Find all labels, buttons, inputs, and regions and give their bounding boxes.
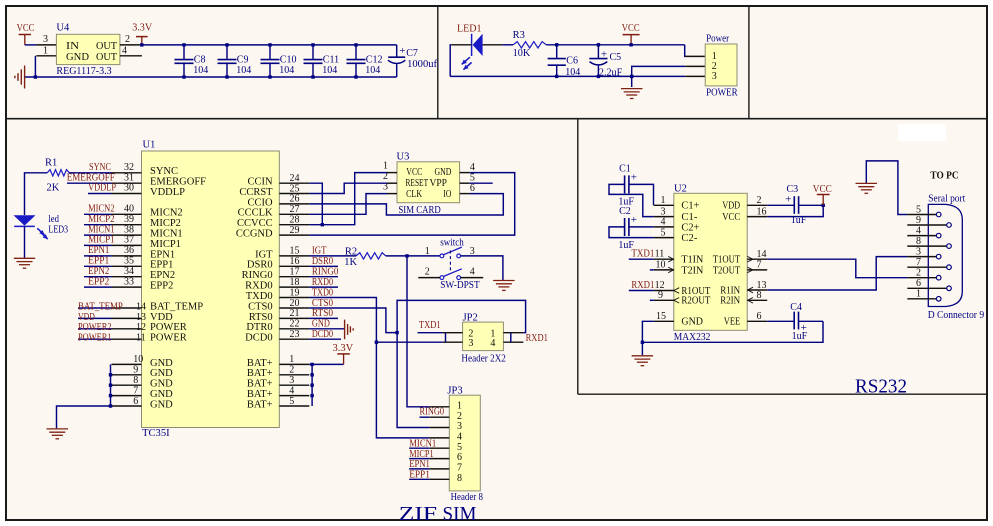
svg-text:MICP2: MICP2 [88, 214, 115, 225]
pin 5 of U1 [279, 405, 309, 407]
svg-text:+: + [785, 194, 791, 206]
svg-text:23: 23 [290, 329, 300, 340]
svg-text:VDDLP: VDDLP [150, 187, 185, 198]
svg-text:10: 10 [656, 260, 666, 271]
svg-text:4: 4 [289, 385, 294, 396]
svg-text:28: 28 [290, 215, 300, 226]
svg-text:VDD: VDD [150, 312, 173, 323]
svg-text:VDD: VDD [78, 312, 95, 323]
wire U2 GND to ground [642, 321, 653, 355]
svg-text:RXD0: RXD0 [312, 277, 333, 288]
svg-text:2: 2 [916, 268, 921, 279]
net RTS0 wire [309, 317, 338, 319]
svg-text:VCC: VCC [406, 167, 422, 178]
wire U3 GND to CCGND [309, 173, 514, 236]
svg-text:Seral port: Seral port [928, 193, 965, 204]
svg-text:REG1117-3.3: REG1117-3.3 [56, 66, 111, 77]
pin 6 of U3 [460, 193, 470, 195]
svg-text:104: 104 [365, 65, 380, 76]
svg-text:GND: GND [150, 358, 173, 369]
pin 10 of U1 [112, 363, 142, 365]
pin 2 of JP2 [443, 332, 463, 334]
pin 18 of U1 [279, 286, 309, 288]
svg-text:4: 4 [122, 46, 127, 57]
net RXD1 wire [397, 300, 525, 427]
capacitor C5 (polarized 2.2uF) [597, 43, 600, 46]
svg-text:MICN2: MICN2 [150, 208, 183, 219]
net BAT_TEMP wire [78, 307, 112, 309]
capacitor C12 [355, 45, 357, 60]
svg-text:104: 104 [193, 65, 208, 76]
svg-text:SYNC: SYNC [89, 162, 111, 173]
pin 4 of U1 [279, 395, 309, 397]
pin 26 of U1 [279, 203, 309, 205]
svg-text:MAX232: MAX232 [674, 332, 711, 343]
pin 7 of U1 [112, 395, 142, 397]
pin 3 of U3 [387, 193, 397, 195]
net POWER2 wire [78, 328, 112, 330]
net POWER1 wire [78, 338, 112, 340]
svg-text:POWER: POWER [150, 322, 187, 333]
pin 3 of U2 [654, 216, 674, 218]
svg-text:+: + [601, 48, 607, 60]
wire U3 VPP stub [470, 182, 493, 184]
svg-text:35: 35 [124, 256, 134, 267]
svg-text:2: 2 [757, 195, 762, 206]
pin 7 of JP3 [429, 468, 449, 470]
pin 1 of U2 [654, 204, 674, 206]
pin 7 of U2 [747, 269, 767, 271]
svg-text:5: 5 [661, 227, 666, 238]
pin 24 of U1 [279, 182, 309, 184]
svg-text:3: 3 [457, 421, 462, 432]
svg-text:DCD0: DCD0 [312, 329, 333, 340]
svg-text:SW-DPST: SW-DPST [440, 280, 480, 291]
LED LED3 [14, 215, 36, 225]
connector Power body [705, 44, 737, 86]
svg-text:MICN1: MICN1 [409, 438, 436, 449]
pin 2 of U4 [120, 44, 140, 46]
svg-text:LED1: LED1 [457, 24, 482, 35]
svg-text:3: 3 [289, 375, 294, 386]
svg-text:BAT+: BAT+ [247, 389, 273, 400]
svg-text:8: 8 [916, 236, 921, 247]
pin 5 of JP3 [429, 447, 449, 449]
capacitor C11 [312, 45, 314, 60]
wire TXD0 branch to JP2 pin3 [376, 341, 442, 343]
svg-text:8: 8 [757, 290, 762, 301]
pin 2 of U1 [279, 374, 309, 376]
svg-text:T1IN: T1IN [681, 255, 703, 266]
power port VCC (regulator input) [19, 34, 31, 36]
svg-text:3: 3 [43, 34, 48, 45]
power port VCC (section 2) [623, 34, 640, 36]
svg-text:27: 27 [290, 204, 300, 215]
pin 31 of U1 [112, 182, 142, 184]
svg-text:POWER2: POWER2 [78, 322, 112, 333]
pin 12 of U1 [112, 328, 142, 330]
pin 12 of U2 [654, 290, 674, 292]
svg-text:LED3: LED3 [48, 225, 68, 236]
pin 4 of U2 [654, 226, 674, 228]
net EPP2 wire [84, 286, 112, 288]
svg-text:3: 3 [712, 71, 717, 82]
svg-text:18: 18 [290, 277, 300, 288]
switch pin 2 wire [418, 277, 440, 279]
svg-text:10K: 10K [513, 48, 531, 59]
svg-text:BAT+: BAT+ [247, 368, 273, 379]
svg-text:19: 19 [290, 287, 300, 298]
pin 27 of U1 [279, 213, 309, 215]
power port 3.3V (BAT+) [337, 353, 349, 355]
svg-text:30: 30 [124, 183, 134, 194]
net TXD1 wire [418, 332, 443, 334]
pin 3 of JP2 [443, 341, 463, 343]
svg-text:EPP2: EPP2 [88, 276, 109, 287]
wire LED3 to ground [24, 226, 26, 258]
svg-text:7: 7 [916, 257, 921, 268]
LED3 light arrows [37, 228, 44, 235]
svg-text:RXD1: RXD1 [526, 333, 548, 344]
svg-text:VPP: VPP [430, 178, 448, 189]
wire CCRST to U3 RESET [309, 183, 387, 193]
net TXD1 label (U2 pin 11) [629, 258, 654, 260]
svg-text:1uF: 1uF [792, 331, 808, 342]
C1 wiring [609, 184, 654, 216]
3.3V top rail [140, 44, 397, 46]
svg-text:EPP1: EPP1 [409, 470, 430, 481]
wire R1IN to DB9 pin3 [767, 257, 907, 290]
net MICN2 wire [84, 213, 112, 215]
svg-text:GND: GND [681, 317, 703, 328]
capacitor C6 [555, 43, 558, 46]
svg-text:RTS0: RTS0 [312, 308, 333, 319]
svg-text:MICN2: MICN2 [88, 204, 115, 215]
C4 return wire [642, 321, 823, 342]
svg-text:EPN1: EPN1 [88, 245, 109, 256]
net EMERGOFF wire [67, 182, 112, 184]
IC U2 MAX232 body [674, 193, 747, 330]
JP2 left tie [445, 333, 447, 343]
ground (U1 GND pins) [47, 428, 69, 430]
LED1 light arrows [462, 57, 470, 64]
svg-text:TXD0: TXD0 [312, 287, 333, 298]
IC U3 SIM CARD body [397, 162, 460, 203]
svg-text:8: 8 [457, 473, 462, 484]
svg-text:1: 1 [289, 354, 294, 365]
svg-text:TXD1: TXD1 [631, 249, 654, 260]
svg-text:GND: GND [312, 319, 330, 330]
svg-text:9: 9 [916, 215, 921, 226]
ground (LED3) [14, 257, 35, 259]
net MICN1 wire [84, 234, 112, 236]
svg-text:104: 104 [279, 65, 294, 76]
svg-text:1: 1 [383, 161, 388, 172]
ground (section 1) [24, 66, 26, 89]
svg-text:MICP2: MICP2 [150, 218, 181, 229]
wire VCC to U4 pin 3 [25, 44, 37, 46]
svg-text:GND: GND [150, 379, 173, 390]
pin 20 of U1 [279, 307, 309, 309]
svg-text:C2-: C2- [681, 233, 697, 244]
capacitor C10 [269, 45, 271, 60]
pin 36 of U1 [112, 255, 142, 257]
svg-text:GND: GND [150, 368, 173, 379]
svg-text:Header 2X2: Header 2X2 [461, 354, 506, 365]
svg-text:C10: C10 [280, 55, 297, 66]
svg-text:RESET: RESET [406, 178, 429, 189]
svg-text:MICP1: MICP1 [150, 239, 181, 250]
svg-text:2: 2 [425, 266, 430, 277]
wire R2 to switch [386, 255, 440, 257]
pin 32 of U1 [112, 172, 142, 174]
wire CCVCC to U3 VCC [309, 173, 387, 225]
svg-text:DSR0: DSR0 [312, 256, 333, 267]
pin 38 of U1 [112, 234, 142, 236]
pin 37 of U1 [112, 244, 142, 246]
bottom gnd rail (section 2) [450, 75, 685, 77]
svg-text:R1: R1 [45, 158, 57, 169]
pin 33 of U1 [112, 286, 142, 288]
net EPN2 wire [84, 276, 112, 278]
svg-text:CCGND: CCGND [236, 229, 273, 240]
svg-text:25: 25 [290, 183, 300, 194]
pin 2 of U2 [747, 204, 767, 206]
svg-text:EPN1: EPN1 [409, 459, 430, 470]
svg-text:BAT_TEMP: BAT_TEMP [150, 301, 203, 312]
svg-text:U4: U4 [56, 23, 70, 34]
svg-text:26: 26 [290, 194, 300, 205]
svg-text:U3: U3 [397, 151, 410, 162]
svg-text:1: 1 [457, 400, 462, 411]
svg-text:14: 14 [757, 249, 767, 260]
net MICP1 wire [84, 244, 112, 246]
wire VEE to C4 [767, 320, 794, 322]
svg-text:POWER: POWER [150, 333, 187, 344]
net EPN1 wire [84, 255, 112, 257]
wire VDD to C3 [767, 204, 794, 206]
svg-text:4: 4 [916, 225, 921, 236]
C2 wiring [629, 226, 654, 228]
svg-text:VDD: VDD [722, 201, 740, 212]
svg-text:6: 6 [916, 278, 921, 289]
pin 1 of U1 [279, 363, 309, 365]
wire LED1 left leg down [450, 45, 451, 77]
svg-text:VCC: VCC [722, 212, 740, 223]
pin 6 of J1 [907, 287, 946, 289]
svg-text:ZIF: ZIF [399, 503, 437, 525]
svg-text:6: 6 [757, 311, 762, 322]
pin 8 of U2 [747, 299, 767, 301]
pin 34 of U1 [112, 276, 142, 278]
ground rail [25, 76, 397, 78]
ground (rotated) on DTR0 pin [309, 328, 344, 330]
white patch [898, 124, 946, 141]
svg-text:14: 14 [136, 301, 146, 312]
pin 2 of JP3 [429, 416, 449, 418]
pin 8 of J1 [907, 245, 946, 247]
pin 11 of U1 [112, 338, 142, 340]
svg-text:C6: C6 [566, 55, 578, 66]
svg-text:17: 17 [290, 267, 300, 278]
BAT+ bus wire [311, 364, 313, 406]
net DCD0 wire [309, 338, 341, 340]
svg-text:RS232: RS232 [855, 376, 907, 397]
net MICP1 wire (JP3) [409, 458, 429, 460]
svg-text:12: 12 [136, 322, 146, 333]
svg-text:3.3V: 3.3V [132, 23, 152, 34]
wire IGT to JP3 pin 1 [407, 256, 429, 407]
net RING0 wire [309, 276, 338, 278]
svg-text:U2: U2 [674, 184, 687, 195]
pin 9 wire [650, 299, 654, 301]
pin 19 of U1 [279, 297, 309, 299]
wire Power pin2 to ground [632, 66, 686, 87]
GND bus wire [110, 364, 112, 406]
wire VCC pin16 [767, 205, 823, 216]
svg-text:C4: C4 [790, 302, 802, 313]
power port VCC (RS232) [817, 194, 830, 196]
svg-text:JP2: JP2 [463, 312, 478, 323]
svg-text:RXD0: RXD0 [245, 281, 272, 292]
svg-text:C2: C2 [619, 206, 631, 217]
svg-text:EPN2: EPN2 [88, 266, 109, 277]
switch pin 4 wire [461, 277, 484, 279]
svg-text:EPN2: EPN2 [150, 270, 175, 281]
net MICN1 wire (JP3) [409, 447, 429, 449]
svg-text:3: 3 [468, 338, 473, 349]
svg-text:C1: C1 [619, 164, 631, 175]
svg-text:GND: GND [435, 167, 452, 178]
pin wires of LED1 [451, 44, 471, 46]
svg-text:1: 1 [43, 46, 48, 57]
svg-text:GND: GND [66, 52, 89, 63]
svg-text:T2OUT: T2OUT [713, 265, 741, 276]
svg-text:SIM: SIM [443, 503, 477, 525]
svg-text:1: 1 [661, 195, 666, 206]
wire R1 to SYNC pin [69, 172, 111, 174]
svg-text:DCD0: DCD0 [245, 333, 272, 344]
svg-text:4: 4 [661, 217, 666, 228]
svg-text:+: + [399, 45, 405, 57]
pin 21 of U1 [279, 317, 309, 319]
svg-text:R3: R3 [513, 30, 525, 41]
svg-text:JP3: JP3 [447, 386, 462, 397]
net RXD1 label (U2 pin 12) [629, 290, 654, 292]
svg-text:+: + [631, 214, 637, 226]
capacitor C7 (polarized 1000uf) [396, 45, 398, 57]
svg-text:6: 6 [133, 396, 138, 407]
regulator U4 body [56, 34, 120, 64]
pin 14 of U1 [112, 307, 142, 309]
svg-text:7: 7 [133, 385, 138, 396]
svg-text:5: 5 [457, 442, 462, 453]
net VDD wire [78, 317, 112, 319]
pin 3 of J1 [907, 256, 936, 258]
pin 17 of U1 [279, 276, 309, 278]
wire T1OUT to DB9 pin2 [767, 259, 907, 278]
wire R1 to LED3 [25, 173, 48, 215]
svg-text:32: 32 [124, 162, 134, 173]
pin 35 of U1 [112, 265, 142, 267]
svg-text:4: 4 [490, 338, 495, 349]
svg-text:4: 4 [470, 266, 475, 277]
svg-text:EPP2: EPP2 [150, 281, 173, 292]
IC U1 TC35I body [142, 151, 280, 428]
pin 11 of U2 [654, 258, 674, 260]
pin 5 of U2 [654, 237, 674, 239]
ground (switch) [493, 280, 514, 282]
svg-text:Power: Power [706, 33, 730, 44]
pin 3 of U1 [279, 384, 309, 386]
wire U4 pin1 to ground rail [34, 56, 36, 77]
svg-text:104: 104 [236, 65, 251, 76]
pin 29 of U1 [279, 234, 309, 236]
svg-text:VCC: VCC [813, 184, 832, 195]
pin 9 of U1 [112, 374, 142, 376]
pin 9 of U2 [654, 299, 674, 301]
capacitor C9 [226, 45, 228, 60]
ground (DB9 shield) [866, 161, 907, 215]
pin 14 of U2 [747, 258, 767, 260]
svg-text:IN: IN [66, 41, 79, 52]
svg-text:4: 4 [470, 162, 475, 173]
svg-text:40: 40 [124, 204, 134, 215]
pin 9 of J1 [907, 224, 946, 226]
svg-text:C11: C11 [323, 55, 339, 66]
pin 5 of J1 [907, 214, 936, 216]
pin 28 of U1 [279, 224, 309, 226]
svg-text:5: 5 [470, 172, 475, 183]
svg-text:22: 22 [290, 319, 300, 330]
capacitor C8 [183, 45, 185, 60]
svg-text:T1OUT: T1OUT [713, 255, 741, 266]
svg-text:15: 15 [290, 246, 300, 257]
svg-text:2: 2 [125, 34, 130, 45]
switch link dashed [449, 251, 451, 273]
svg-text:CCRST: CCRST [239, 187, 273, 198]
svg-text:BAT+: BAT+ [247, 399, 273, 410]
svg-text:C5: C5 [610, 52, 622, 63]
net DSR0 wire [309, 265, 338, 267]
pin 8 of U1 [112, 384, 142, 386]
pin 40 of U1 [112, 213, 142, 215]
svg-text:16: 16 [757, 206, 767, 217]
svg-text:R2OUT: R2OUT [681, 296, 710, 307]
pin 25 of U1 [279, 193, 309, 195]
svg-text:7: 7 [457, 463, 462, 474]
svg-text:C8: C8 [194, 55, 206, 66]
svg-text:1: 1 [425, 246, 430, 257]
net RING0 wire (JP3) [420, 416, 430, 418]
pin 4 of U4 [120, 55, 142, 57]
svg-text:TC35I: TC35I [142, 428, 170, 439]
svg-text:TXD0: TXD0 [246, 291, 273, 302]
net RXD0 wire [309, 286, 338, 288]
svg-text:11: 11 [136, 333, 146, 344]
svg-text:TXD1: TXD1 [419, 320, 441, 331]
svg-text:RING0: RING0 [312, 267, 339, 278]
pin 1 of JP2 [503, 332, 523, 334]
svg-text:3: 3 [916, 246, 921, 257]
U2 pin direction marks [668, 256, 673, 262]
svg-text:C12: C12 [366, 55, 383, 66]
svg-text:BAT+: BAT+ [247, 358, 273, 369]
svg-text:VCC: VCC [17, 23, 35, 34]
svg-text:104: 104 [322, 65, 337, 76]
svg-text:RTS0: RTS0 [249, 312, 273, 323]
pin 3 of JP3 [429, 427, 449, 429]
